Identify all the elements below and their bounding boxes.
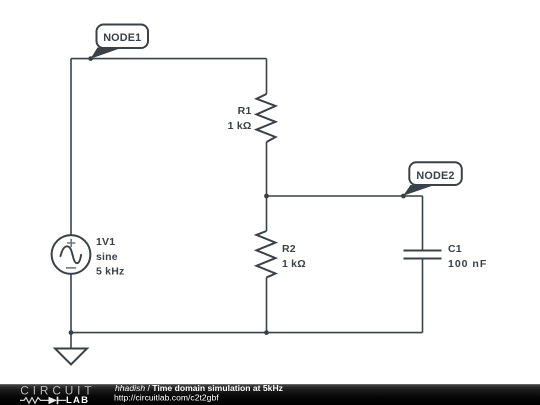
junction dot at NODE2 anchor — [401, 194, 406, 199]
wire: R1 top lead — [266, 59, 268, 94]
wire: middle horizontal node2 run to C1 branch — [267, 195, 423, 197]
C1 value label "C1 / 100 nF" — [448, 243, 487, 270]
junction dot bottom at R2 — [264, 330, 269, 335]
resistor R2 — [257, 231, 276, 277]
junction dot at NODE1 anchor — [88, 56, 93, 61]
svg-text:1 kΩ: 1 kΩ — [282, 258, 306, 270]
svg-text:1 kΩ: 1 kΩ — [228, 120, 252, 132]
capacitor C1 — [404, 251, 442, 259]
svg-text:5 kHz: 5 kHz — [96, 266, 124, 278]
R1 value label "R1 / 1 kΩ" — [228, 105, 252, 132]
CircuitLab logo — [20, 384, 95, 405]
footer black bar — [0, 384, 540, 405]
svg-text:http://circuitlab.com/c2t2gbf: http://circuitlab.com/c2t2gbf — [114, 392, 219, 402]
wire: top horizontal V1+ to R1 top — [71, 58, 267, 60]
voltage source V1 — [52, 235, 91, 274]
svg-text:NODE1: NODE1 — [103, 32, 141, 44]
svg-text:NODE2: NODE2 — [416, 170, 454, 182]
svg-text:100 nF: 100 nF — [448, 258, 487, 270]
wire: V1 bottom terminal down to ground junction — [70, 274, 72, 349]
node label NODE2 — [403, 162, 462, 196]
wire: R1 bottom lead down to node2 junction — [266, 142, 268, 196]
junction dot at ground node left — [69, 330, 74, 335]
wire: R2 bottom lead — [266, 277, 268, 332]
wire: C1 top lead — [422, 196, 424, 251]
svg-text:1V1: 1V1 — [96, 236, 115, 248]
svg-text:LAB: LAB — [66, 395, 89, 405]
wire: bottom horizontal ground rail — [71, 332, 423, 334]
svg-text:R2: R2 — [282, 243, 296, 255]
resistor R1 — [257, 94, 276, 142]
node label NODE1 — [91, 25, 149, 59]
wire: R2 top lead — [266, 196, 268, 231]
wire: C1 bottom lead — [422, 259, 424, 333]
wire: left vertical from top wire down to V1 top terminal — [70, 59, 72, 236]
junction dot node2 at R1/R2 — [264, 194, 269, 199]
V1 value label "1V1 / sine / 5 kHz" — [96, 236, 124, 278]
svg-text:R1: R1 — [238, 105, 252, 117]
svg-text:sine: sine — [96, 251, 118, 263]
R2 value label "R2 / 1 kΩ" — [282, 243, 306, 270]
svg-text:C1: C1 — [448, 243, 462, 255]
ground — [55, 349, 87, 365]
